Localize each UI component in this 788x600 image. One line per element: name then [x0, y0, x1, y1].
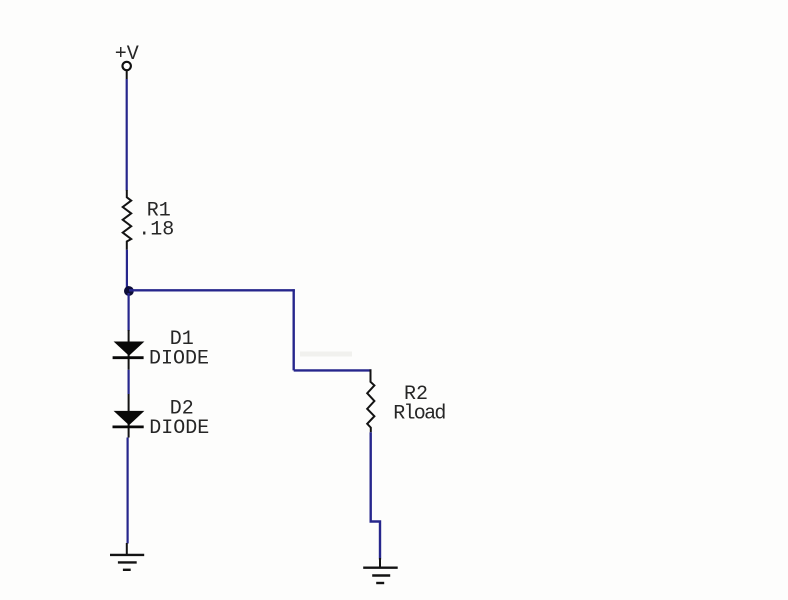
label D1: [170, 328, 194, 351]
svg-text:DIODE: DIODE: [149, 348, 209, 371]
wire corner down: [293, 289, 295, 370]
wire R2 to ground jog: [371, 432, 380, 559]
value .18: [138, 218, 174, 241]
wire junction to corner (horizontal): [129, 289, 295, 291]
node +V label: [115, 43, 139, 66]
value Rload: [393, 403, 445, 426]
label R2: [404, 383, 428, 406]
diode D1: [113, 330, 145, 370]
resistor R1: [123, 190, 132, 250]
label R1: [147, 199, 171, 222]
diode D2: [113, 394, 145, 438]
svg-text:DIODE: DIODE: [149, 417, 209, 440]
label DIODE (D1): [149, 348, 209, 371]
terminal +V: [123, 62, 131, 79]
label D2: [170, 398, 194, 421]
ground GND1: [110, 543, 144, 570]
wire junction to D1: [128, 293, 130, 331]
svg-text:Rload: Rload: [393, 403, 445, 426]
wire D1 to D2: [128, 370, 130, 394]
junction dot: [124, 286, 134, 296]
ghost artifact line: [300, 352, 352, 357]
wire corner to R2 (horizontal): [294, 369, 372, 371]
label DIODE (D2): [149, 417, 209, 440]
ground GND2: [363, 558, 398, 583]
resistor R2: [367, 369, 374, 432]
wire +V to R1: [126, 79, 128, 191]
svg-text:.18: .18: [138, 218, 174, 241]
wire D2 to ground: [126, 438, 128, 544]
wire R1 to junction: [127, 250, 129, 293]
